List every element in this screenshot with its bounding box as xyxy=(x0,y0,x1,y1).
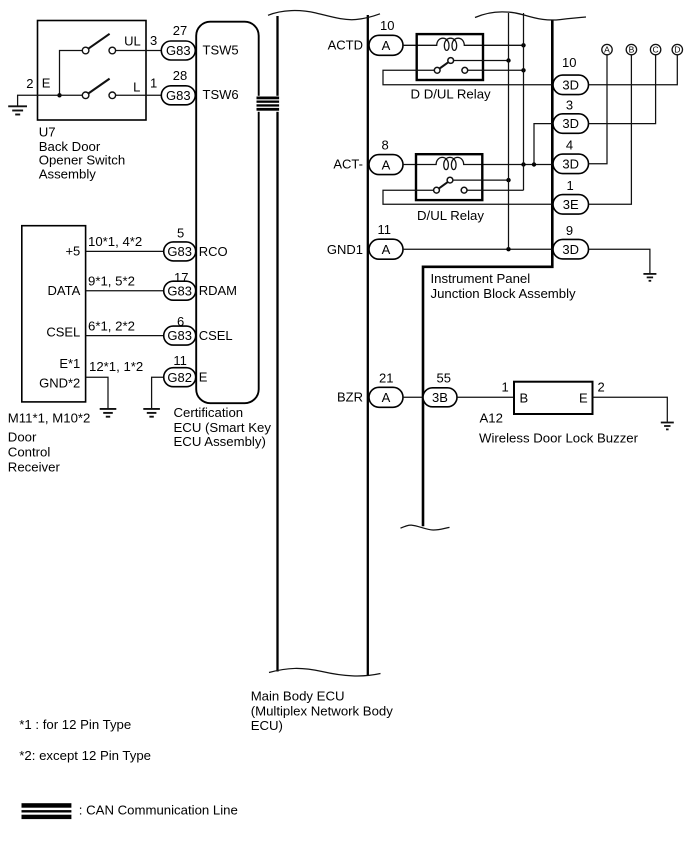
svg-text:1: 1 xyxy=(150,76,157,91)
relay K1 switch pivot xyxy=(448,58,454,64)
junction dot xyxy=(521,162,525,166)
relay K1 switch NO contact xyxy=(462,67,468,73)
svg-text:17: 17 xyxy=(174,270,188,285)
relay K1 D D/UL wiring: coil feed xyxy=(403,38,524,50)
svg-text:5: 5 xyxy=(177,226,184,241)
wire 3D(3) link xyxy=(534,124,553,165)
wire NO out xyxy=(467,189,524,191)
ground U7 xyxy=(8,106,27,114)
svg-text:ECU): ECU) xyxy=(251,718,283,733)
wire 3D(9) to ground xyxy=(589,249,650,273)
svg-text:BZR: BZR xyxy=(337,389,363,404)
svg-text:D: D xyxy=(674,45,680,55)
svg-text:D/UL Relay: D/UL Relay xyxy=(417,208,484,223)
connector G83 RDAM xyxy=(164,281,196,300)
svg-text:RCO: RCO xyxy=(199,244,228,259)
wire pivot out xyxy=(454,60,509,62)
svg-text:CSEL: CSEL xyxy=(199,328,233,343)
switch L contacts xyxy=(82,92,115,99)
svg-text:Assembly: Assembly xyxy=(39,166,97,181)
connector G83 CSEL xyxy=(164,326,196,345)
main body ECU top break xyxy=(268,11,380,20)
svg-text:1: 1 xyxy=(567,178,574,193)
wire CSEL to CSEL xyxy=(86,335,164,337)
wire 3E(1) to node B xyxy=(589,55,632,204)
svg-text:A: A xyxy=(382,242,391,257)
svg-text:B: B xyxy=(629,45,635,55)
svg-text:E: E xyxy=(42,75,51,90)
wire buzzer E to ground xyxy=(593,397,668,422)
svg-text:A: A xyxy=(382,390,391,405)
svg-text:E: E xyxy=(199,370,208,385)
svg-text:E*1: E*1 xyxy=(59,356,80,371)
svg-text:1: 1 xyxy=(502,380,509,395)
wire NO out xyxy=(468,69,524,71)
wire G82 to ground xyxy=(152,377,164,408)
wire pivot out xyxy=(453,179,509,181)
svg-text:3D: 3D xyxy=(562,116,579,131)
connector G83 TSW5 xyxy=(161,41,195,60)
svg-text:G83: G83 xyxy=(167,283,192,298)
junction dot xyxy=(506,58,510,62)
connector G83 TSW6 xyxy=(161,86,195,105)
door control receiver box xyxy=(22,226,86,402)
svg-text:ECU Assembly): ECU Assembly) xyxy=(174,434,266,449)
junction dot xyxy=(506,178,510,182)
junction block bottom break xyxy=(401,525,450,530)
svg-text:ECU (Smart Key: ECU (Smart Key xyxy=(174,420,272,435)
junction dot xyxy=(521,43,525,47)
svg-text:Back Door: Back Door xyxy=(39,139,101,154)
svg-text:2: 2 xyxy=(598,380,605,395)
connector G83 RCO xyxy=(164,242,196,261)
svg-text:6*1, 2*2: 6*1, 2*2 xyxy=(88,319,135,334)
buzzer A12 box xyxy=(514,382,593,414)
connector A BZR xyxy=(369,387,403,407)
svg-text:2: 2 xyxy=(26,76,33,91)
connector A GND1 xyxy=(369,239,403,259)
svg-text:U7: U7 xyxy=(39,125,56,140)
svg-text:Junction Block Assembly: Junction Block Assembly xyxy=(431,286,577,301)
svg-text:A: A xyxy=(604,45,610,55)
relay K2 switch NO contact xyxy=(461,187,467,193)
wire K2 common to 3E(1) xyxy=(383,190,553,204)
svg-text:3D: 3D xyxy=(562,77,579,92)
relay K2 switch pivot xyxy=(447,177,453,183)
switch L armature xyxy=(88,79,109,94)
svg-text:ACT-: ACT- xyxy=(333,156,363,171)
svg-text:6: 6 xyxy=(177,314,184,329)
wire TSW6 to G83 xyxy=(115,94,164,96)
svg-text:3D: 3D xyxy=(562,156,579,171)
svg-text:3B: 3B xyxy=(432,390,448,405)
junction block top break xyxy=(475,12,586,20)
svg-text:3: 3 xyxy=(150,33,157,48)
svg-text:G83: G83 xyxy=(167,244,192,259)
wire 3D(3) to node C xyxy=(589,55,656,123)
wire UL left link xyxy=(60,51,83,96)
CAN line mask xyxy=(256,96,280,112)
svg-text:+5: +5 xyxy=(65,244,80,259)
svg-text:*2: except 12 Pin Type: *2: except 12 Pin Type xyxy=(19,748,151,763)
ground buzzer xyxy=(661,423,674,430)
main body ECU bottom break xyxy=(269,668,381,676)
junction dot xyxy=(506,247,510,251)
svg-text:55: 55 xyxy=(437,370,451,385)
connector 3B xyxy=(423,388,457,407)
svg-text:3E: 3E xyxy=(563,197,579,212)
wire 3D(4) to node A xyxy=(589,55,608,164)
svg-text:Main Body ECU: Main Body ECU xyxy=(251,689,345,704)
node B xyxy=(626,44,636,54)
junction dot xyxy=(57,93,61,97)
svg-text:E: E xyxy=(579,390,588,405)
ground receiver xyxy=(100,409,117,417)
svg-text:A12: A12 xyxy=(480,411,503,426)
svg-text:3: 3 xyxy=(566,97,573,112)
connector 3D pin10 xyxy=(553,75,589,95)
svg-text:*1 : for 12 Pin Type: *1 : for 12 Pin Type xyxy=(19,717,131,732)
svg-text:21: 21 xyxy=(379,370,393,385)
instrument panel junction block boundary xyxy=(423,21,552,527)
connector 3D pin9 xyxy=(553,239,589,259)
wire K1 common to 3D(10) xyxy=(383,70,553,85)
connector 3D pin3 xyxy=(553,114,589,134)
main body ECU right boundary xyxy=(367,15,369,675)
svg-text:12*1, 1*2: 12*1, 1*2 xyxy=(89,359,143,374)
wire GND to ground xyxy=(86,377,108,408)
svg-text:9: 9 xyxy=(566,223,573,238)
svg-text:Door: Door xyxy=(8,430,37,445)
svg-text:Instrument Panel: Instrument Panel xyxy=(431,271,531,286)
switch UL contacts xyxy=(82,47,115,54)
certification ECU U1 body xyxy=(196,22,259,404)
legend CAN symbol xyxy=(22,803,72,819)
wire 3D(10) to node D xyxy=(589,55,678,85)
svg-text:RDAM: RDAM xyxy=(199,283,237,298)
svg-text:28: 28 xyxy=(173,68,187,83)
svg-text:11: 11 xyxy=(173,353,187,368)
relay K1 box xyxy=(417,34,483,80)
svg-text:G83: G83 xyxy=(166,88,191,103)
svg-text:8: 8 xyxy=(382,138,389,153)
svg-text:B: B xyxy=(520,390,529,405)
svg-text:11: 11 xyxy=(378,222,392,237)
relay K2 switch left contact xyxy=(434,187,440,193)
svg-text:10: 10 xyxy=(562,55,576,70)
svg-text:3D: 3D xyxy=(562,242,579,257)
node A xyxy=(602,44,612,54)
svg-text:UL: UL xyxy=(124,33,141,48)
relay K1 armature xyxy=(440,62,449,68)
svg-text:Certification: Certification xyxy=(174,405,244,420)
relay K1 switch left contact xyxy=(434,67,440,73)
svg-text:10: 10 xyxy=(380,18,394,33)
wire +5 to RCO xyxy=(86,250,164,252)
svg-text:DATA: DATA xyxy=(48,283,81,298)
svg-text:A: A xyxy=(382,157,391,172)
svg-text:10*1, 4*2: 10*1, 4*2 xyxy=(88,234,142,249)
svg-text:ACTD: ACTD xyxy=(328,37,363,52)
svg-text:(Multiplex Network Body: (Multiplex Network Body xyxy=(251,703,394,718)
CAN communication lines xyxy=(257,97,280,111)
node C xyxy=(650,44,660,54)
node D xyxy=(672,44,682,54)
junction dot xyxy=(521,68,525,72)
wire L to ground xyxy=(18,95,83,105)
U7 back door opener switch assembly box xyxy=(38,21,147,121)
svg-text:Receiver: Receiver xyxy=(8,460,61,475)
connector 3D pin4 xyxy=(553,154,589,174)
svg-text:CSEL: CSEL xyxy=(46,324,80,339)
wire 3B to buzzer xyxy=(457,396,514,398)
wire GND1 to 3D(9) xyxy=(403,248,553,250)
relay K2 armature xyxy=(439,182,448,188)
svg-text:A: A xyxy=(382,38,391,53)
svg-text:D D/UL Relay: D D/UL Relay xyxy=(411,87,492,102)
svg-text:M11*1, M10*2: M11*1, M10*2 xyxy=(8,410,91,425)
svg-text:4: 4 xyxy=(566,138,573,153)
wire A to 3B xyxy=(403,396,423,398)
connector A ACT- xyxy=(369,155,403,175)
svg-text:GND1: GND1 xyxy=(327,242,363,257)
svg-text:TSW5: TSW5 xyxy=(203,42,239,57)
wire DATA to RDAM xyxy=(86,290,164,292)
wire TSW5 to G83 xyxy=(115,50,164,52)
svg-text:G83: G83 xyxy=(167,328,192,343)
main body ECU left boundary xyxy=(276,16,278,672)
ground G82 xyxy=(143,409,160,417)
svg-text:Control: Control xyxy=(8,445,51,460)
svg-text:GND*2: GND*2 xyxy=(39,376,80,391)
ground 3D(9) xyxy=(643,274,656,281)
svg-text:L: L xyxy=(133,79,140,94)
svg-text:27: 27 xyxy=(173,23,187,38)
bus wire x508.5 xyxy=(508,13,510,249)
relay K2 D/UL wiring: coil feed to 3D(4) xyxy=(403,157,553,169)
relay K2 box xyxy=(416,154,482,200)
connector G82 E xyxy=(164,368,196,387)
svg-text:G82: G82 xyxy=(167,370,192,385)
svg-text:Opener Switch: Opener Switch xyxy=(39,153,126,168)
svg-text:: CAN Communication Line: : CAN Communication Line xyxy=(79,803,238,818)
switch UL armature xyxy=(88,34,109,49)
connector A ACTD xyxy=(369,35,403,55)
svg-text:TSW6: TSW6 xyxy=(203,87,239,102)
svg-text:Wireless Door Lock Buzzer: Wireless Door Lock Buzzer xyxy=(479,430,639,445)
svg-text:G83: G83 xyxy=(166,43,191,58)
connector 3E pin1 xyxy=(553,195,589,215)
svg-text:C: C xyxy=(653,45,659,55)
bus wire x523.5 xyxy=(523,13,525,190)
svg-text:9*1, 5*2: 9*1, 5*2 xyxy=(88,274,135,289)
junction dot xyxy=(532,162,536,166)
